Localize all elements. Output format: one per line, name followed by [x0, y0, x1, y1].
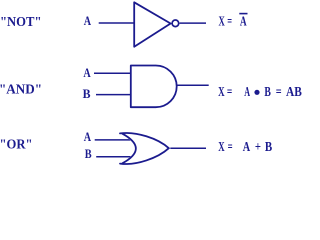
svg-text:=: = [227, 84, 232, 99]
wire OR input A [95, 139, 131, 141]
AND gate [131, 66, 177, 108]
wire AND input B [96, 94, 131, 96]
svg-text:X: X [218, 139, 224, 154]
svg-text:X: X [218, 84, 225, 99]
svg-text:B: B [264, 84, 271, 99]
svg-text:A: A [84, 13, 92, 28]
inversion bubble [172, 20, 179, 27]
svg-text:"NOT": "NOT" [0, 15, 42, 30]
svg-text:+: + [255, 139, 261, 154]
inverter gate (NOT triangle) [134, 2, 170, 47]
svg-text:A: A [83, 65, 91, 80]
OR gate [120, 133, 169, 164]
svg-text:=: = [276, 84, 282, 99]
svg-text:A: A [240, 14, 247, 29]
svg-text:A: A [244, 84, 250, 99]
svg-text:X: X [219, 14, 225, 29]
svg-text:B: B [85, 146, 92, 161]
svg-text:"AND": "AND" [0, 83, 42, 98]
wire AND output [177, 84, 209, 86]
svg-text:A: A [243, 139, 250, 154]
value label X = A AND B = AB [218, 84, 302, 99]
value label X = A-bar [219, 14, 248, 29]
wire NOT input [99, 22, 135, 24]
svg-text:=: = [227, 14, 232, 29]
svg-text:B: B [265, 139, 272, 154]
svg-text:AB: AB [286, 84, 302, 99]
svg-text:B: B [83, 86, 91, 101]
svg-text:=: = [228, 139, 233, 154]
wire NOT output [180, 22, 206, 24]
wire OR output [170, 147, 206, 149]
svg-text:"OR": "OR" [0, 138, 33, 153]
value label X = A + B [218, 139, 272, 154]
svg-text:A: A [84, 129, 92, 144]
wire OR input B [96, 156, 131, 158]
wire AND input A [94, 72, 131, 74]
